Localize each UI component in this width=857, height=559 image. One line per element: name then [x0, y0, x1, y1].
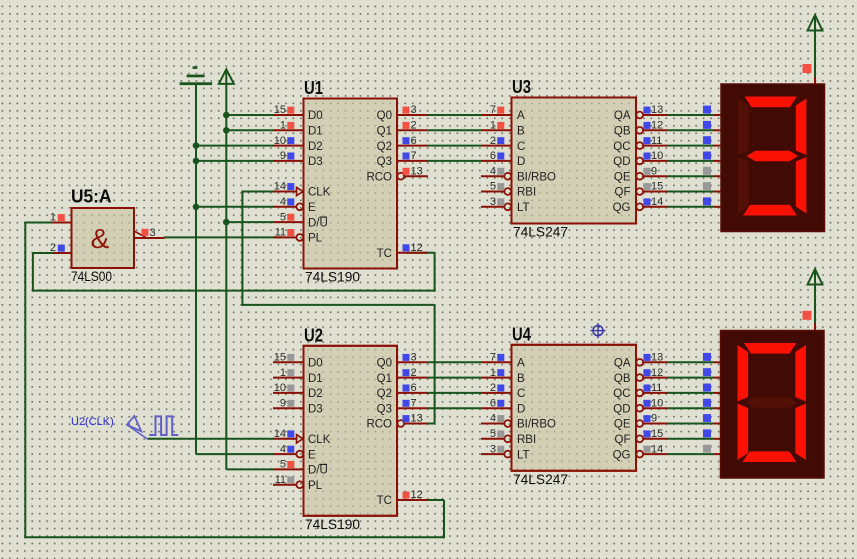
svg-text:7: 7 [411, 397, 417, 409]
svg-text:QE: QE [614, 419, 631, 431]
svg-text:C: C [517, 141, 525, 153]
wire: ground rail to U2 E [196, 453, 274, 455]
svg-text:3: 3 [150, 227, 156, 239]
svg-text:QC: QC [613, 388, 630, 400]
wire: U3 QE to display DS1 [668, 175, 715, 177]
svg-text:D3: D3 [308, 403, 323, 415]
wire: U4 QE to display DS2 [668, 423, 715, 425]
svg-text:13: 13 [651, 352, 663, 364]
svg-text:D2: D2 [308, 388, 323, 400]
svg-text:7: 7 [490, 104, 496, 116]
svg-text:BI/RBO: BI/RBO [517, 419, 556, 431]
junction ground/D3 [193, 158, 200, 165]
svg-text:12: 12 [411, 489, 423, 501]
U2 pin 4 E [273, 453, 297, 455]
svg-text:U2(CLK): U2(CLK) [71, 416, 114, 428]
U1 pin 6 Q2 [397, 145, 428, 147]
wire: U3 QF to display DS1 [668, 191, 715, 193]
svg-text:74LS190: 74LS190 [305, 270, 360, 285]
svg-text:3: 3 [411, 352, 417, 364]
wire: U2 Q2 to U4 [428, 392, 481, 394]
power symbol for display DS1 [814, 16, 816, 77]
svg-text:7: 7 [490, 352, 496, 364]
U2 pin 2 Q1 [397, 377, 428, 379]
wire: U1 Q0 to U3 [428, 114, 481, 116]
svg-text:E: E [308, 449, 316, 461]
svg-text:QF: QF [615, 434, 631, 446]
power symbol (top-left rail) [219, 69, 234, 84]
junction ground/E [193, 204, 200, 211]
svg-text:BI/RBO: BI/RBO [517, 171, 556, 183]
junction power/D0 [223, 112, 230, 119]
U1 pin 5 D/U [273, 221, 304, 223]
svg-text:QA: QA [614, 358, 631, 370]
DS1 segment c (lit) [796, 157, 807, 214]
svg-text:13: 13 [411, 413, 423, 425]
DS2 segment a (lit) [744, 343, 796, 354]
svg-text:LT: LT [517, 449, 530, 461]
svg-text:15: 15 [651, 181, 663, 193]
svg-text:RCO: RCO [366, 419, 392, 431]
wire: U3 QD to display DS1 [668, 160, 715, 162]
svg-text:4: 4 [490, 413, 496, 425]
U2 pin 9 D3 [273, 407, 304, 409]
svg-text:14: 14 [274, 181, 286, 193]
7-segment display DS2 body [721, 331, 825, 479]
DS2 segment g (unlit) [746, 397, 798, 408]
wire: U3 QB to display DS1 [668, 129, 715, 131]
svg-text:15: 15 [274, 352, 286, 364]
U4 pin 4 BI/RBO [481, 423, 505, 425]
wire: U5 pin1 net (from U2 TC) [25, 222, 52, 224]
svg-text:B: B [517, 126, 525, 138]
U1 pin 4 E [273, 206, 297, 208]
U4 pin 6 D [481, 407, 512, 409]
svg-text:10: 10 [274, 135, 286, 147]
U2 pin 5 D/U [273, 468, 304, 470]
junction power/D-U [223, 219, 230, 226]
wire: U4 QB to display DS2 [668, 377, 715, 379]
svg-text:CLK: CLK [308, 187, 331, 199]
svg-text:D/U: D/U [308, 217, 328, 229]
svg-text:Q2: Q2 [377, 388, 392, 400]
svg-text:U3: U3 [512, 76, 531, 97]
svg-text:Q0: Q0 [377, 358, 392, 370]
svg-text:9: 9 [280, 150, 286, 162]
svg-text:15: 15 [651, 428, 663, 440]
wire: U5 pin2 net (from U1 TC) [33, 252, 53, 254]
svg-text:D/U: D/U [308, 465, 328, 477]
U2 pin 11 PL [273, 484, 297, 486]
U2 pin 6 Q2 [397, 392, 428, 394]
U4 pin 14 QG [636, 451, 643, 458]
svg-text:1: 1 [50, 212, 56, 224]
wire: U5 output to U1 PL [164, 236, 281, 238]
svg-text:15: 15 [274, 104, 286, 116]
svg-text:QD: QD [613, 156, 630, 168]
DS1 segment g (lit) [747, 151, 799, 162]
svg-text:4: 4 [280, 443, 286, 455]
svg-text:QG: QG [613, 202, 631, 214]
svg-text:74LS247: 74LS247 [513, 225, 568, 240]
svg-text:1: 1 [280, 367, 286, 379]
svg-text:4: 4 [490, 165, 496, 177]
U3 pin 10 QD [636, 158, 643, 165]
IC U4 74LS247 body [512, 345, 637, 471]
svg-text:C: C [517, 388, 525, 400]
U4 pin 15 QF [636, 435, 643, 442]
svg-text:QA: QA [614, 110, 631, 122]
wire: U1 Q3 to U3 [428, 160, 481, 162]
DS1 segment f (unlit) [738, 99, 749, 156]
svg-text:A: A [517, 110, 525, 122]
wire: U4 QF to display DS2 [668, 438, 715, 440]
wire: ground to U1 E [196, 206, 274, 208]
U2 pin 1 D1 [273, 377, 304, 379]
svg-text:2: 2 [411, 367, 417, 379]
U2 pin 7 Q3 [397, 407, 428, 409]
DS2 power pin state square [803, 311, 812, 320]
svg-text:U1: U1 [304, 77, 323, 98]
svg-text:6: 6 [490, 150, 496, 162]
wire: U3 QA to display DS1 [668, 114, 715, 116]
svg-text:2: 2 [411, 120, 417, 132]
U1 pin 14 CLK [273, 191, 297, 193]
svg-text:74LS247: 74LS247 [513, 472, 568, 487]
svg-text:U4: U4 [512, 323, 532, 344]
svg-text:6: 6 [490, 397, 496, 409]
svg-text:2: 2 [490, 382, 496, 394]
wire: U4 QA to display DS2 [668, 361, 715, 363]
U4 pin 10 QD [636, 405, 643, 412]
U2 pin 14 CLK [273, 438, 297, 440]
IC U1 74LS190 body [304, 99, 398, 269]
wire: U2 Q0 to U4 [428, 361, 481, 363]
svg-text:1: 1 [490, 120, 496, 132]
U1 pin 2 Q1 [397, 129, 428, 131]
U2 pin 10 D2 [273, 392, 304, 394]
svg-text:Q2: Q2 [377, 141, 392, 153]
svg-text:12: 12 [651, 367, 663, 379]
svg-text:U5:A: U5:A [71, 186, 112, 207]
IC U2 74LS190 body [304, 346, 398, 516]
svg-text:QE: QE [614, 171, 631, 183]
svg-text:D1: D1 [308, 373, 323, 385]
wire: U1 Q2 to U3 [428, 145, 481, 147]
svg-text:QB: QB [614, 126, 631, 138]
U1 pin 11 PL [273, 236, 297, 238]
svg-text:10: 10 [274, 382, 286, 394]
U3 pin 5 RBI [481, 191, 505, 193]
svg-text:9: 9 [280, 397, 286, 409]
wire: U4 QG to display DS2 [668, 453, 715, 455]
junction power/D1 [223, 127, 230, 134]
svg-text:11: 11 [651, 135, 662, 147]
svg-text:14: 14 [274, 428, 286, 440]
wire: power to U1 D1 [226, 129, 273, 131]
U2 pin 15 D0 [273, 361, 304, 363]
U3 pin 11 QC [636, 142, 643, 149]
wire: U4 QC to display DS2 [668, 392, 715, 394]
svg-text:3: 3 [411, 104, 417, 116]
svg-text:LT: LT [517, 202, 530, 214]
wire: ground rail vertical [195, 84, 197, 454]
U1 pin 10 D2 [273, 145, 304, 147]
wire: U1 CLK from U2 RCO [242, 191, 273, 193]
svg-text:D0: D0 [308, 358, 323, 370]
U3 pin 2 C [481, 145, 512, 147]
svg-text:4: 4 [280, 196, 286, 208]
U1 pin 13 RCO [397, 173, 404, 180]
U1 pin 1 D1 [273, 129, 304, 131]
U3 pin 7 A [481, 114, 512, 116]
wire: U1 Q1 to U3 [428, 129, 481, 131]
DS1 segment d (lit) [743, 205, 797, 216]
U1 pin 15 D0 [273, 114, 304, 116]
7-segment display DS1 body [721, 84, 825, 232]
svg-text:1: 1 [490, 367, 496, 379]
DS2 segment d (lit) [743, 451, 797, 462]
svg-text:QC: QC [613, 141, 630, 153]
U3 pin 6 D [481, 160, 512, 162]
svg-text:D2: D2 [308, 141, 323, 153]
NAND gate U5:A 74LS00 body [72, 208, 135, 268]
U4 pin 9 QE [636, 420, 643, 427]
svg-text:TC: TC [377, 495, 392, 507]
svg-text:D: D [517, 403, 525, 415]
svg-text:D: D [517, 156, 525, 168]
U3 pin 12 QB [636, 127, 643, 134]
U5 pin 3 output [134, 237, 165, 239]
U4 pin 13 QA [636, 359, 643, 366]
svg-text:13: 13 [651, 104, 663, 116]
svg-text:6: 6 [411, 135, 417, 147]
svg-text:11: 11 [275, 227, 286, 239]
svg-text:7: 7 [411, 150, 417, 162]
U3 pin 4 BI/RBO [481, 175, 505, 177]
wire: U4 QD to display DS2 [668, 407, 715, 409]
svg-text:RCO: RCO [366, 171, 392, 183]
svg-text:5: 5 [490, 181, 496, 193]
svg-text:6: 6 [411, 382, 417, 394]
svg-text:PL: PL [308, 480, 323, 492]
ground symbol [193, 66, 198, 69]
svg-text:5: 5 [490, 428, 496, 440]
svg-text:Q3: Q3 [377, 156, 392, 168]
wire: power to U1 D/U [226, 221, 273, 223]
svg-text:D3: D3 [308, 156, 323, 168]
svg-text:10: 10 [651, 150, 663, 162]
svg-text:12: 12 [411, 242, 423, 254]
U1 pin 12 TC [397, 252, 428, 254]
origin marker (crosshair) [593, 326, 603, 336]
wire: U2 Q3 to U4 [428, 407, 481, 409]
svg-text:RBI: RBI [517, 434, 536, 446]
wire: power to U1 D0 [226, 114, 273, 116]
svg-text:D0: D0 [308, 110, 323, 122]
U4 pin 5 RBI [481, 438, 505, 440]
U1 pin 9 D3 [273, 160, 304, 162]
wire: U3 QG to display DS1 [668, 206, 715, 208]
svg-text:QF: QF [615, 187, 631, 199]
wire: power rail vertical [225, 70, 227, 469]
wire: ground to U1 D3 [196, 160, 273, 162]
wire: U2 Q1 to U4 [428, 377, 481, 379]
svg-text:Q1: Q1 [377, 126, 392, 138]
DS2 segment c (lit) [795, 404, 806, 461]
U4 pin 1 B [481, 377, 512, 379]
IC U3 74LS247 body [512, 98, 637, 224]
svg-text:Q1: Q1 [377, 373, 392, 385]
U1 pin 3 Q0 [397, 114, 428, 116]
U3 pin 15 QF [636, 188, 643, 195]
svg-text:TC: TC [377, 248, 392, 260]
svg-text:RBI: RBI [517, 187, 536, 199]
DS2 segment e (lit) [738, 404, 749, 461]
svg-text:E: E [308, 202, 316, 214]
U3 pin 13 QA [636, 112, 643, 119]
U3 pin 14 QG [636, 203, 643, 210]
svg-text:11: 11 [651, 382, 662, 394]
U5 pin 1 [52, 222, 72, 224]
wire: clock source to U2 CLK [148, 438, 274, 440]
svg-text:5: 5 [280, 459, 286, 471]
svg-text:9: 9 [651, 413, 657, 425]
U2 pin 13 RCO [397, 420, 404, 427]
svg-text:D1: D1 [308, 126, 323, 138]
wire: power rail to U2 D/U [226, 468, 273, 470]
svg-text:11: 11 [275, 474, 286, 486]
U3 pin 9 QE [636, 173, 643, 180]
svg-text:QG: QG [613, 449, 631, 461]
svg-text:2: 2 [50, 242, 56, 254]
svg-text:CLK: CLK [308, 434, 331, 446]
svg-text:74LS190: 74LS190 [305, 517, 360, 532]
wire: U3 QC to display DS1 [668, 145, 715, 147]
svg-text:74LS00: 74LS00 [71, 269, 112, 284]
svg-text:U2: U2 [304, 324, 323, 345]
svg-text:QB: QB [614, 373, 631, 385]
U3 pin 3 LT [481, 206, 505, 208]
DS1 segment a (lit) [745, 97, 797, 108]
U4 pin 7 A [481, 361, 512, 363]
svg-text:13: 13 [411, 165, 423, 177]
junction ground/D2 [193, 142, 200, 149]
svg-text:5: 5 [280, 211, 286, 223]
U4 pin 3 LT [481, 453, 505, 455]
power symbol for display DS2 [814, 270, 816, 323]
svg-text:QD: QD [613, 403, 630, 415]
svg-text:9: 9 [651, 165, 657, 177]
svg-text:&: & [91, 223, 110, 254]
U4 pin 12 QB [636, 374, 643, 381]
svg-text:A: A [517, 358, 525, 370]
wire: ground to U1 D2 [196, 145, 273, 147]
U2 pin 3 Q0 [397, 361, 428, 363]
svg-text:1: 1 [280, 120, 286, 132]
DS1 segment e (unlit) [738, 157, 749, 214]
DS1 power pin state square [803, 64, 812, 73]
svg-text:3: 3 [490, 443, 496, 455]
svg-text:12: 12 [651, 120, 663, 132]
U4 pin 11 QC [636, 390, 643, 397]
DS1 segment b (lit) [796, 99, 807, 156]
svg-text:2: 2 [490, 135, 496, 147]
svg-text:14: 14 [651, 196, 663, 208]
svg-text:PL: PL [308, 233, 323, 245]
svg-text:14: 14 [651, 443, 663, 455]
svg-text:3: 3 [490, 196, 496, 208]
U3 pin 1 B [481, 129, 512, 131]
svg-text:Q3: Q3 [377, 403, 392, 415]
DS2 segment b (lit) [795, 345, 806, 402]
svg-text:Q0: Q0 [377, 110, 392, 122]
svg-text:10: 10 [651, 397, 663, 409]
svg-text:B: B [517, 373, 525, 385]
DS2 segment f (lit) [738, 345, 749, 402]
U2 pin 12 TC [397, 499, 428, 501]
U1 pin 7 Q3 [397, 160, 428, 162]
U5 pin 2 [53, 252, 72, 254]
U4 pin 2 C [481, 392, 512, 394]
